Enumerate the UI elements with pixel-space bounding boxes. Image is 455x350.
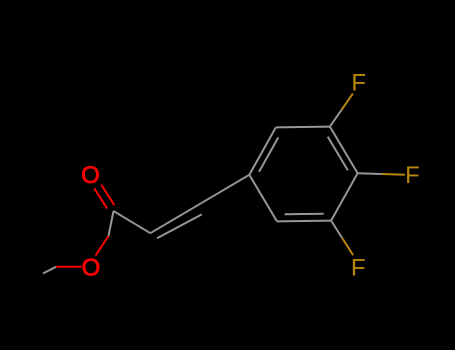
svg-text:F: F <box>351 69 366 96</box>
bond carbonyl C0 - V1 <box>114 211 151 233</box>
C3-F bond gray half <box>330 110 342 127</box>
C5-F bond olive half <box>342 238 353 255</box>
ester C0-O2 single bond gray half <box>109 211 114 236</box>
vinyl chain bond V1-C1 (includes C=C main line) <box>150 175 249 233</box>
methoxy O2-CH3 bond gray half <box>43 267 56 274</box>
C4-F bond olive half <box>381 173 405 176</box>
benzene ring C2-C3 bond <box>276 126 330 129</box>
svg-text:F: F <box>351 255 366 282</box>
svg-text:O: O <box>82 254 101 281</box>
benzene ring C3=C4 inner double bond line <box>328 137 348 171</box>
vinyl C=C second (parallel) double bond line <box>157 214 202 238</box>
benzene ring C6-C1 bond <box>249 175 277 222</box>
carbonyl C=O double bond line B (red) <box>94 188 107 208</box>
benzene ring C5=C6 inner double bond line <box>285 213 324 216</box>
svg-text:O: O <box>81 162 100 189</box>
carbonyl C=O double bond line A (red) <box>101 185 114 205</box>
ester C0-O2 single bond red half <box>96 236 109 256</box>
benzene ring C3-C4 bond <box>330 127 358 174</box>
svg-text:F: F <box>405 162 420 189</box>
benzene ring C1-C2 bond <box>249 127 275 174</box>
methoxy O2-CH3 bond red half <box>56 266 82 268</box>
C4-F bond gray half <box>358 172 382 175</box>
benzene ring C4-C5 bond <box>331 173 358 220</box>
C3-F bond olive half <box>341 94 353 111</box>
C5-F bond gray half <box>331 221 342 238</box>
benzene ring C5-C6 bond <box>277 220 331 223</box>
benzene ring C1=C2 inner double bond line <box>259 137 278 171</box>
